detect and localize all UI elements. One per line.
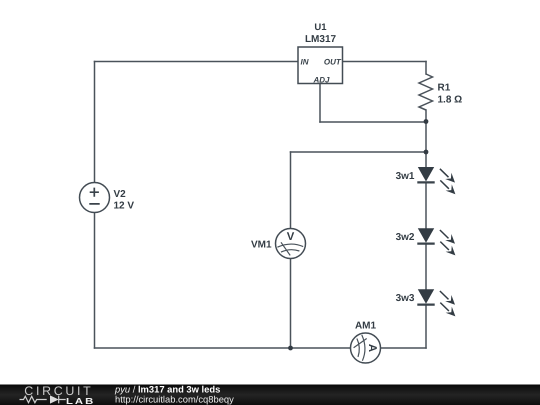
wire VM1 top lead <box>290 152 292 228</box>
svg-text:http://circuitlab.com/cq8beqy: http://circuitlab.com/cq8beqy <box>115 394 234 405</box>
regulator U1 body <box>298 22 343 85</box>
CircuitLab logo wordmark <box>20 384 96 405</box>
wire VM1 horizontal to node <box>291 151 427 153</box>
node junction ADJ/R1 <box>424 119 429 124</box>
svg-text:VM1: VM1 <box>251 240 272 251</box>
wire 3w2 to 3w3 <box>425 245 427 289</box>
svg-text:OUT: OUT <box>324 58 342 67</box>
svg-text:ADJ: ADJ <box>312 76 330 85</box>
LED 3w2 <box>396 228 456 255</box>
svg-text:U1: U1 <box>314 22 327 33</box>
svg-text:R1: R1 <box>438 83 451 94</box>
wire right vertical from corner up to 3w3 <box>425 305 427 349</box>
wire bottom from V2 to AM1 <box>95 347 351 349</box>
wire R1 bottom lead to 3w1 <box>425 110 427 167</box>
svg-text:1.8 Ω: 1.8 Ω <box>438 95 463 106</box>
LED 3w1 <box>396 167 456 194</box>
voltage source V2 <box>80 183 135 213</box>
wire left vertical V2 top lead <box>94 62 96 183</box>
wire left vertical V2 bottom lead <box>94 213 96 348</box>
wire 3w1 to 3w2 <box>425 184 427 229</box>
wire top from V2 to U1 IN <box>95 61 299 63</box>
svg-text:AM1: AM1 <box>355 321 377 332</box>
footer credits text <box>114 384 234 405</box>
svg-text:3w3: 3w3 <box>396 293 415 304</box>
footer bar <box>0 385 540 405</box>
wire R1 top lead <box>425 62 427 75</box>
wire VM1 bottom lead <box>290 259 292 348</box>
wire AM1 right to corner <box>381 347 426 349</box>
svg-text:V: V <box>287 231 295 243</box>
svg-text:A: A <box>366 344 378 352</box>
wire ADJ horizontal to node <box>320 121 426 123</box>
node junction VM1/bottom wire <box>288 346 293 351</box>
wire U1 ADJ lead <box>319 84 321 123</box>
svg-text:3w2: 3w2 <box>396 232 415 243</box>
node junction VM1/LED chain <box>424 150 429 155</box>
svg-text:IN: IN <box>301 58 309 67</box>
wire U1 OUT to R1 <box>343 61 427 63</box>
ammeter AM1 <box>351 321 381 363</box>
svg-text:LAB: LAB <box>66 396 95 405</box>
svg-text:V2: V2 <box>114 189 127 200</box>
voltmeter VM1 <box>251 229 306 259</box>
svg-text:LM317: LM317 <box>305 34 337 45</box>
resistor R1 <box>419 74 462 110</box>
LED 3w3 <box>396 289 456 316</box>
svg-text:3w1: 3w1 <box>396 171 415 182</box>
svg-text:12 V: 12 V <box>114 201 135 212</box>
